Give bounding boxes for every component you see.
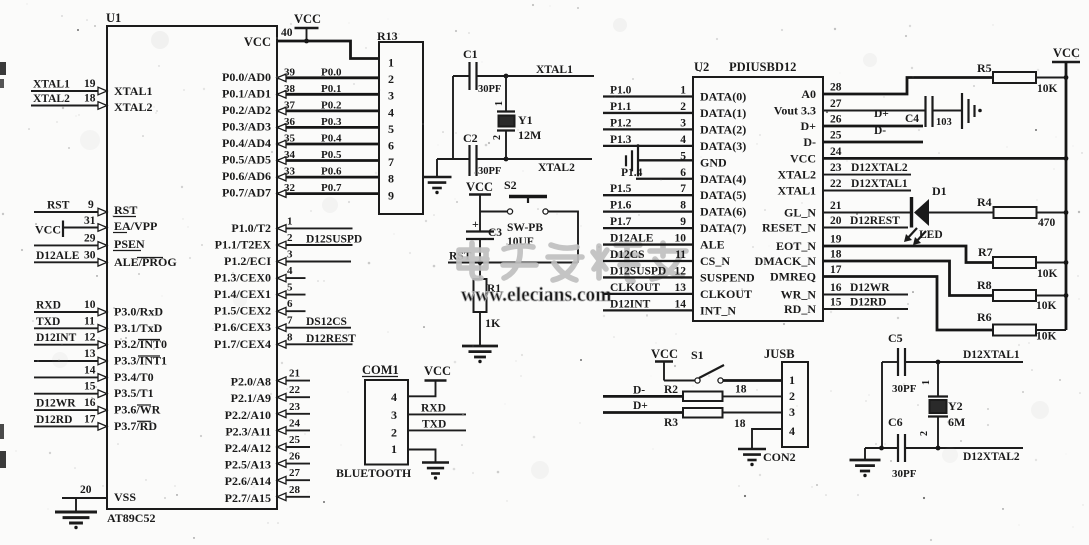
resistor R4 body — [994, 207, 1037, 218]
wire left rail C5-C6 — [881, 362, 883, 448]
resistor R8 body — [993, 290, 1036, 301]
svg-text:DATA(4): DATA(4) — [700, 172, 746, 186]
svg-text:D12XTAL2: D12XTAL2 — [963, 451, 1020, 463]
U1 port wire P1.6 pin 7 net DS12CS — [277, 327, 351, 329]
svg-text:103: 103 — [936, 117, 952, 128]
U1 port wire P1.0 pin 1 — [277, 227, 353, 229]
svg-text:D-: D- — [803, 135, 816, 149]
scan edge blob 2 — [0, 79, 4, 88]
svg-text:17: 17 — [830, 264, 842, 276]
svg-text:4: 4 — [287, 265, 293, 277]
svg-text:P0.4/AD4: P0.4/AD4 — [222, 136, 271, 150]
U1 port wire P2.2 pin 23 — [277, 413, 310, 415]
svg-text:GND: GND — [700, 155, 727, 169]
svg-text:13: 13 — [84, 348, 96, 360]
svg-text:21: 21 — [830, 200, 842, 212]
svg-text:D12SUSPD: D12SUSPD — [610, 265, 666, 277]
crystal Y1 bottom lead — [497, 129, 515, 131]
svg-text:12: 12 — [675, 265, 687, 277]
U1 port wire P2.1 pin 22 — [277, 396, 310, 398]
svg-text:XTAL1: XTAL1 — [778, 184, 816, 198]
svg-text:35: 35 — [284, 133, 296, 145]
svg-text:P2.0/A8: P2.0/A8 — [231, 375, 271, 389]
svg-text:2: 2 — [919, 431, 930, 436]
svg-text:6: 6 — [287, 298, 293, 310]
wire R6 to VCC rail — [1036, 329, 1066, 331]
LED D1 cathode bar — [910, 197, 913, 228]
capacitor C6 plates — [897, 434, 899, 462]
svg-text:2: 2 — [391, 426, 397, 440]
svg-text:12: 12 — [84, 332, 96, 344]
wire net XTAL1 stub — [506, 75, 594, 77]
svg-text:DATA(1): DATA(1) — [700, 106, 746, 120]
svg-text:P0.4: P0.4 — [321, 133, 342, 145]
crystal Y2 top lead — [937, 362, 939, 397]
svg-text:31: 31 — [84, 215, 96, 227]
svg-text:23: 23 — [289, 401, 301, 413]
U1 input stub net D12RD pin 17 — [34, 425, 107, 427]
svg-text:DATA(7): DATA(7) — [700, 221, 746, 235]
U1 WR overline — [137, 404, 151, 406]
svg-text:29: 29 — [84, 232, 96, 244]
U1 port wire P2.5 pin 26 — [277, 463, 310, 465]
resistor R5 body — [993, 72, 1036, 83]
svg-text:1: 1 — [388, 56, 394, 70]
U1 port wire P0.1 pin 38 to R13 — [277, 93, 379, 96]
connector JUSB body — [782, 362, 808, 447]
svg-text:D12RD: D12RD — [36, 414, 72, 426]
U1 port wire P2.0 pin 21 — [277, 380, 310, 382]
svg-text:DMACK_N: DMACK_N — [755, 254, 817, 268]
U1 port wire P2.6 pin 27 — [277, 479, 310, 481]
svg-text:P0.2: P0.2 — [321, 99, 342, 111]
svg-text:P1.0/T2: P1.0/T2 — [231, 221, 271, 235]
node XTAL1 junction dot — [504, 74, 509, 79]
svg-text:U1: U1 — [106, 11, 121, 25]
svg-text:RST: RST — [47, 200, 70, 212]
wire COM1 pin4 to VCC — [408, 381, 436, 397]
watermark chinese characters — [459, 243, 487, 278]
svg-text:P0.7/AD7: P0.7/AD7 — [222, 186, 271, 200]
U2 wire P1.1 pin 2 — [603, 112, 693, 114]
U1 PROG overline — [137, 257, 163, 259]
U2 pin 26 D+ wire — [823, 125, 923, 128]
scan edge blob 3 — [0, 424, 4, 439]
svg-text:2: 2 — [789, 389, 795, 403]
svg-text:C6: C6 — [888, 415, 903, 429]
wire net D+ to R3 — [603, 411, 683, 414]
svg-text:28: 28 — [289, 484, 301, 496]
svg-text:13: 13 — [675, 282, 687, 294]
power VCC symbol above pin 40 — [295, 27, 319, 30]
svg-text:DATA(3): DATA(3) — [700, 139, 746, 153]
svg-text:1: 1 — [789, 373, 795, 387]
svg-text:P1.2: P1.2 — [610, 117, 632, 129]
svg-text:P3.5/T1: P3.5/T1 — [114, 386, 154, 400]
IC U1 AT89C52 body — [107, 26, 277, 509]
svg-text:DS12CS: DS12CS — [306, 316, 347, 328]
wire C2 left to ground branch — [437, 158, 470, 160]
svg-text:18: 18 — [734, 418, 746, 430]
wire R3 to JUSB pin 3 — [723, 412, 783, 414]
svg-text:+: + — [472, 217, 479, 231]
svg-text:D+: D+ — [800, 119, 816, 133]
svg-text:P0.7: P0.7 — [321, 182, 342, 194]
svg-text:P2.4/A12: P2.4/A12 — [225, 441, 271, 455]
svg-text:R4: R4 — [977, 195, 992, 209]
svg-text:DATA(2): DATA(2) — [700, 122, 746, 136]
svg-text:19: 19 — [84, 78, 96, 90]
wire COM1 pin1 to ground — [408, 450, 436, 463]
svg-text:TXD: TXD — [36, 316, 60, 328]
svg-text:1: 1 — [921, 380, 932, 385]
svg-text:7: 7 — [388, 155, 394, 169]
scan smudge marks — [52, 18, 1049, 479]
U1 port wire P0.4 pin 35 to R13 — [277, 143, 379, 146]
svg-text:1: 1 — [391, 442, 397, 456]
svg-text:P0.6: P0.6 — [321, 166, 342, 178]
svg-text:10: 10 — [675, 233, 687, 245]
svg-text:P0.2/AD2: P0.2/AD2 — [222, 103, 271, 117]
svg-text:BLUETOOTH: BLUETOOTH — [336, 466, 411, 480]
svg-text:30PF: 30PF — [478, 166, 501, 177]
svg-text:3: 3 — [789, 405, 795, 419]
svg-text:34: 34 — [284, 149, 296, 161]
wire R5 to VCC rail — [1036, 77, 1066, 79]
svg-text:19: 19 — [830, 234, 842, 246]
U1 port wire P2.3 pin 24 — [277, 429, 310, 431]
svg-text:P2.2/A10: P2.2/A10 — [225, 408, 271, 422]
U2 wire P1.0 pin 1 — [603, 95, 693, 97]
power VCC symbol above C3 — [469, 193, 491, 196]
scan edge blob 4 — [0, 451, 6, 468]
svg-text:SUSPEND: SUSPEND — [700, 270, 755, 284]
U1 VSS pin 20 wire — [62, 497, 107, 499]
svg-text:P1.1: P1.1 — [610, 101, 632, 113]
U1 PSEN underline — [113, 250, 141, 252]
svg-text:P1.3: P1.3 — [610, 134, 632, 146]
svg-text:28: 28 — [830, 82, 842, 94]
resistor R7 body — [993, 257, 1036, 268]
svg-text:AT89C52: AT89C52 — [107, 511, 155, 525]
svg-text:XTAL2: XTAL2 — [778, 168, 816, 182]
svg-text:37: 37 — [284, 99, 296, 111]
svg-text:DATA(0): DATA(0) — [700, 90, 746, 104]
U1 port wire P1.5 pin 6 — [277, 310, 306, 312]
svg-text:14: 14 — [675, 298, 687, 310]
U2 wire D12INT pin 14 — [603, 309, 693, 311]
svg-text:JUSB: JUSB — [764, 347, 795, 361]
svg-text:R3: R3 — [664, 417, 678, 429]
wire VCC to S1 — [664, 380, 695, 382]
svg-text:Vout 3.3: Vout 3.3 — [774, 104, 816, 118]
svg-text:DATA(5): DATA(5) — [700, 188, 746, 202]
junction dot RST node — [478, 260, 483, 265]
resistor R3 body — [683, 408, 723, 418]
wire S1 to JUSB pin 1 — [723, 379, 782, 382]
junction dot R4 rail — [1064, 210, 1069, 215]
U2 GND pin 5 wire — [638, 159, 693, 161]
svg-text:P2.6/A14: P2.6/A14 — [225, 474, 271, 488]
svg-text:39: 39 — [284, 66, 296, 78]
svg-text:18: 18 — [830, 249, 842, 261]
svg-text:S1: S1 — [691, 348, 704, 362]
crystal Y2 top plate — [928, 395, 948, 397]
svg-text:P2.1/A9: P2.1/A9 — [231, 391, 271, 405]
svg-text:www.elecians.com: www.elecians.com — [461, 285, 612, 306]
wire to ground bottom right — [864, 448, 866, 460]
svg-text:8: 8 — [388, 172, 394, 186]
svg-text:27: 27 — [289, 467, 301, 479]
svg-text:Y1: Y1 — [518, 113, 533, 127]
svg-text:20: 20 — [80, 484, 92, 496]
wire rail to C5 — [882, 361, 898, 363]
svg-text:22: 22 — [830, 178, 842, 190]
U2 pin 16 net D12WR wire — [823, 294, 908, 296]
svg-text:P1.5: P1.5 — [610, 183, 632, 195]
svg-text:P0.5: P0.5 — [321, 149, 342, 161]
svg-text:10: 10 — [84, 299, 96, 311]
svg-text:SW-PB: SW-PB — [507, 222, 543, 234]
power VCC symbol at COM1 — [425, 379, 447, 382]
LED light arrows — [906, 228, 917, 240]
svg-text:VCC: VCC — [466, 180, 493, 194]
svg-text:XTAL2: XTAL2 — [33, 93, 70, 105]
svg-text:RXD: RXD — [421, 403, 446, 415]
resistor R2 body — [683, 392, 723, 402]
ground below U1 VSS — [55, 512, 97, 523]
svg-text:XTAL1: XTAL1 — [114, 84, 152, 98]
svg-text:D12ALE: D12ALE — [610, 233, 654, 245]
svg-text:XTAL1: XTAL1 — [536, 64, 573, 76]
svg-text:11: 11 — [675, 249, 686, 261]
svg-text:P1.6: P1.6 — [610, 200, 632, 212]
svg-text:CON2: CON2 — [763, 450, 796, 464]
switch S1 lever — [699, 365, 724, 378]
svg-text:5: 5 — [680, 150, 686, 162]
U2 wire P1.6 pin 8 — [603, 210, 693, 212]
svg-text:P1.3/CEX0: P1.3/CEX0 — [214, 271, 271, 285]
junction dot R7 rail — [1064, 260, 1069, 265]
U1 port wire P0.6 pin 33 to R13 — [277, 176, 379, 179]
wire ground to C6 — [865, 447, 898, 449]
connector COM1 body — [365, 380, 408, 465]
crystal Y2 bottom plate — [928, 415, 948, 417]
svg-text:C4: C4 — [905, 113, 919, 125]
U2 pin 25 D- wire — [823, 141, 923, 144]
svg-text:8: 8 — [680, 200, 686, 212]
svg-text:30: 30 — [84, 249, 96, 261]
svg-text:4: 4 — [680, 134, 686, 146]
svg-text:P0.1: P0.1 — [321, 83, 341, 95]
svg-text:26: 26 — [830, 114, 842, 126]
svg-text:P2.3/A11: P2.3/A11 — [225, 424, 271, 438]
svg-text:RXD: RXD — [36, 300, 61, 312]
resistor R1 body — [474, 279, 487, 312]
U1 port wire P0.0 pin 39 to R13 — [277, 76, 379, 79]
svg-text:2: 2 — [492, 135, 503, 140]
U1 input stub net RST pin 9 — [34, 211, 107, 213]
svg-text:Y2: Y2 — [948, 399, 963, 413]
sideways ground right of C4 — [961, 93, 963, 129]
svg-text:21: 21 — [289, 368, 300, 380]
junction dot rail bottom — [879, 446, 884, 451]
U1 port wire P1.2 pin 3 — [277, 261, 351, 263]
svg-text:D12XTAL2: D12XTAL2 — [851, 162, 908, 174]
svg-text:30PF: 30PF — [478, 84, 501, 95]
wire left rail C1-C2 — [452, 76, 454, 159]
svg-text:D12CS: D12CS — [610, 249, 645, 261]
svg-text:P0.5/AD5: P0.5/AD5 — [222, 153, 271, 167]
U2 wire P1.7 pin 9 — [603, 227, 693, 229]
U1 port wire P2.7 pin 28 — [277, 496, 310, 498]
svg-text:D12XTAL1: D12XTAL1 — [963, 349, 1020, 361]
ground below R1 — [462, 346, 498, 357]
svg-text:PSEN: PSEN — [114, 237, 145, 251]
svg-text:4: 4 — [388, 105, 394, 119]
svg-text:PDIUSBD12: PDIUSBD12 — [729, 60, 796, 74]
svg-text:7: 7 — [287, 315, 293, 327]
svg-text:12M: 12M — [518, 128, 541, 142]
switch S1 contacts — [695, 378, 700, 383]
svg-text:27: 27 — [830, 98, 842, 110]
svg-text:VCC: VCC — [35, 223, 61, 237]
svg-text:C2: C2 — [463, 131, 478, 145]
svg-text:2: 2 — [680, 101, 686, 113]
wire net D12XTAL1 top — [905, 361, 1023, 363]
svg-text:EOT_N: EOT_N — [776, 239, 816, 253]
svg-text:XTAL2: XTAL2 — [114, 100, 152, 114]
svg-text:WR_N: WR_N — [781, 288, 817, 302]
svg-text:3: 3 — [287, 249, 293, 261]
U1 INT1 overline — [138, 355, 160, 357]
svg-text:P0.3: P0.3 — [321, 116, 342, 128]
svg-text:25: 25 — [830, 130, 842, 142]
capacitor C4 plates — [924, 96, 926, 127]
switch S2 contacts — [507, 209, 512, 214]
U1 RST underline — [113, 216, 136, 218]
svg-text:P1.7: P1.7 — [610, 216, 632, 228]
U2 wire D12CS pin 11 — [603, 260, 693, 262]
svg-text:C3: C3 — [488, 227, 502, 239]
svg-text:6M: 6M — [948, 415, 965, 429]
svg-text:10K: 10K — [1037, 268, 1058, 280]
U1 port wire P1.3 pin 4 — [277, 277, 306, 279]
svg-text:2: 2 — [287, 232, 293, 244]
svg-text:D12REST: D12REST — [850, 215, 900, 227]
svg-text:D12INT: D12INT — [610, 298, 651, 310]
svg-text:D-: D- — [633, 385, 645, 397]
IC U2 PDIUSBD12 body — [693, 77, 823, 321]
svg-text:R6: R6 — [977, 310, 992, 324]
svg-text:D12ALE: D12ALE — [36, 250, 80, 262]
crystal Y1 body — [499, 116, 515, 127]
svg-text:D12REST: D12REST — [306, 333, 356, 345]
svg-text:470: 470 — [1038, 217, 1056, 229]
wire C4 to sideways ground — [933, 110, 962, 112]
U1 input stub net XTAL1 pin 19 — [31, 90, 107, 92]
power VCC rail right — [1052, 61, 1080, 64]
svg-text:16: 16 — [84, 397, 96, 409]
svg-text:VCC: VCC — [424, 364, 451, 378]
svg-text:S2: S2 — [504, 178, 517, 192]
U1 input stub net D12ALE pin 30 — [34, 261, 107, 263]
resistor network R13 body — [379, 42, 423, 214]
svg-text:10K: 10K — [1036, 331, 1057, 343]
svg-text:7: 7 — [680, 183, 686, 195]
svg-text:GL_N: GL_N — [784, 206, 816, 220]
svg-text:D12SUSPD: D12SUSPD — [306, 234, 362, 246]
wire C2 right to XTAL2 node — [477, 158, 507, 160]
ground below COM1 — [422, 463, 449, 474]
svg-text:EA/VPP: EA/VPP — [114, 219, 157, 233]
svg-text:24: 24 — [830, 146, 842, 158]
svg-text:CLKOUT: CLKOUT — [700, 287, 752, 301]
U2 wire P1.4 pin 6 — [636, 178, 693, 180]
U2 wire P1.2 pin 3 — [603, 128, 693, 130]
wire S2 right contact down to RST — [548, 212, 578, 263]
svg-text:D1: D1 — [932, 184, 947, 198]
R1 bottom lead — [479, 312, 481, 346]
svg-text:15: 15 — [84, 381, 96, 393]
svg-text:26: 26 — [289, 451, 301, 463]
svg-text:1K: 1K — [485, 316, 501, 330]
svg-text:P0.3/AD3: P0.3/AD3 — [222, 119, 271, 133]
ground below JUSB — [738, 449, 766, 460]
svg-text:30PF: 30PF — [892, 468, 917, 480]
wire R8 to VCC rail — [1036, 295, 1066, 297]
svg-text:D12RD: D12RD — [850, 297, 886, 309]
svg-text:XTAL2: XTAL2 — [538, 162, 575, 174]
U1 input stub net TXD pin 11 — [34, 327, 107, 329]
svg-text:9: 9 — [88, 199, 94, 211]
U2 pin 15 net D12RD wire — [823, 308, 908, 310]
U1 port wire P1.7 pin 8 net D12REST — [277, 343, 353, 345]
wire R4 to VCC rail — [1037, 212, 1067, 214]
svg-text:DMREQ: DMREQ — [770, 270, 816, 284]
svg-text:P3.1/TxD: P3.1/TxD — [114, 321, 163, 335]
svg-text:8: 8 — [287, 331, 293, 343]
svg-text:P2.7/A15: P2.7/A15 — [225, 491, 271, 505]
svg-text:P1.7/CEX4: P1.7/CEX4 — [214, 337, 271, 351]
svg-text:R13: R13 — [377, 29, 398, 43]
U1 port wire P0.7 pin 32 to R13 — [277, 192, 379, 195]
capacitor C3 plates — [466, 230, 494, 232]
U2 wire P1.5 pin 7 — [603, 194, 693, 196]
svg-text:P3.0/RxD: P3.0/RxD — [114, 305, 163, 319]
power VCC symbol at S1 — [655, 360, 673, 363]
U2 pin 17 DMREQ wire to R6 — [823, 277, 993, 331]
scan edge blob 1 — [0, 62, 6, 75]
svg-text:36: 36 — [284, 116, 296, 128]
U1 input stub net D12INT pin 12 — [34, 344, 107, 346]
svg-text:P1.2/ECI: P1.2/ECI — [224, 254, 271, 268]
svg-text:16: 16 — [830, 282, 842, 294]
U1 port wire P1.4 pin 5 — [277, 294, 306, 296]
svg-text:P0.0/AD0: P0.0/AD0 — [222, 70, 271, 84]
ground below C6 rail — [850, 460, 881, 471]
svg-text:D12XTAL1: D12XTAL1 — [851, 178, 908, 190]
svg-text:D+: D+ — [874, 108, 889, 120]
wire net RST row — [448, 262, 578, 264]
svg-text:15: 15 — [830, 297, 842, 309]
svg-text:VCC: VCC — [294, 12, 321, 26]
U1 port wire P0.2 pin 37 to R13 — [277, 110, 379, 113]
svg-text:XTAL1: XTAL1 — [33, 79, 70, 91]
svg-text:P2.5/A13: P2.5/A13 — [225, 458, 271, 472]
svg-text:10K: 10K — [1036, 300, 1057, 312]
svg-text:3: 3 — [391, 408, 397, 422]
